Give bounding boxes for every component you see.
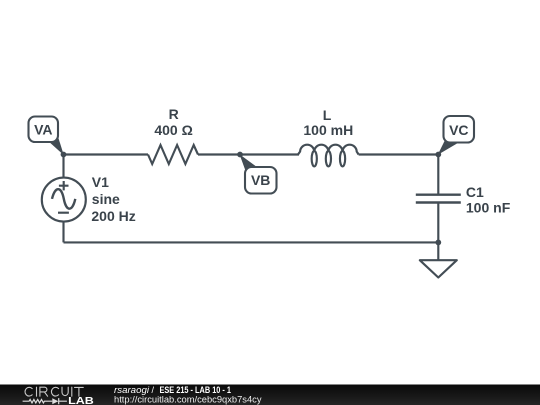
wire VA node down to source — [62, 155, 64, 179]
inductor loop 2 — [326, 151, 331, 166]
svg-text:V1: V1 — [92, 174, 109, 190]
wire bottom node to ground — [437, 242, 439, 260]
wire source to bottom — [62, 221, 64, 242]
inductor loop 1 — [312, 151, 317, 166]
junction node VB — [237, 152, 243, 158]
flag VA box — [29, 117, 59, 143]
V1 sine wave — [52, 189, 75, 209]
wire capacitor to bottom node — [437, 203, 439, 243]
svg-text:R: R — [169, 106, 179, 122]
svg-text:C1: C1 — [466, 184, 484, 200]
flag VB box — [245, 167, 277, 194]
voltage source V1 circle — [42, 178, 86, 222]
wire VA node to resistor — [64, 153, 149, 155]
inductor L — [298, 145, 359, 155]
wire VC node down to capacitor — [437, 155, 439, 195]
svg-text:400 Ω: 400 Ω — [154, 122, 192, 138]
svg-text:VA: VA — [34, 122, 52, 138]
bottom wire — [64, 241, 439, 243]
svg-text:VC: VC — [449, 122, 468, 138]
junction bottom node — [435, 240, 441, 246]
svg-text:http://circuitlab.com/cebc9qxb: http://circuitlab.com/cebc9qxb7s4cy — [114, 395, 262, 405]
wire resistor to VB node — [198, 153, 240, 155]
svg-text:LAB: LAB — [68, 396, 94, 405]
flag VC box — [444, 116, 475, 143]
V1 minus sign — [58, 212, 69, 214]
flag VB pointer — [240, 154, 258, 173]
junction node VC — [435, 152, 441, 158]
flag VC pointer — [438, 137, 457, 155]
svg-text:200 Hz: 200 Hz — [91, 208, 135, 224]
svg-text:ESE 215 - LAB 10 - 1: ESE 215 - LAB 10 - 1 — [160, 385, 232, 395]
ground — [420, 260, 457, 277]
logo resistor zigzag — [23, 400, 53, 403]
V1 plus sign — [59, 181, 69, 190]
svg-text:VB: VB — [251, 172, 270, 188]
svg-text:sine: sine — [92, 191, 120, 207]
capacitor C1 — [416, 195, 461, 203]
junction node VA — [61, 152, 67, 158]
svg-text:100 nF: 100 nF — [466, 199, 511, 215]
inductor loop 3 — [340, 151, 345, 166]
flag VA pointer — [47, 134, 64, 156]
wire inductor to VC node — [359, 153, 439, 155]
svg-text:100 mH: 100 mH — [303, 122, 353, 138]
svg-text:rsaraogi: rsaraogi — [114, 385, 150, 395]
logo CIRCUIT letters — [25, 387, 83, 396]
resistor R — [148, 145, 198, 164]
wire VB node to inductor — [240, 153, 299, 155]
footer bar — [0, 385, 540, 405]
logo diode — [52, 398, 58, 404]
svg-text:L: L — [323, 107, 332, 123]
